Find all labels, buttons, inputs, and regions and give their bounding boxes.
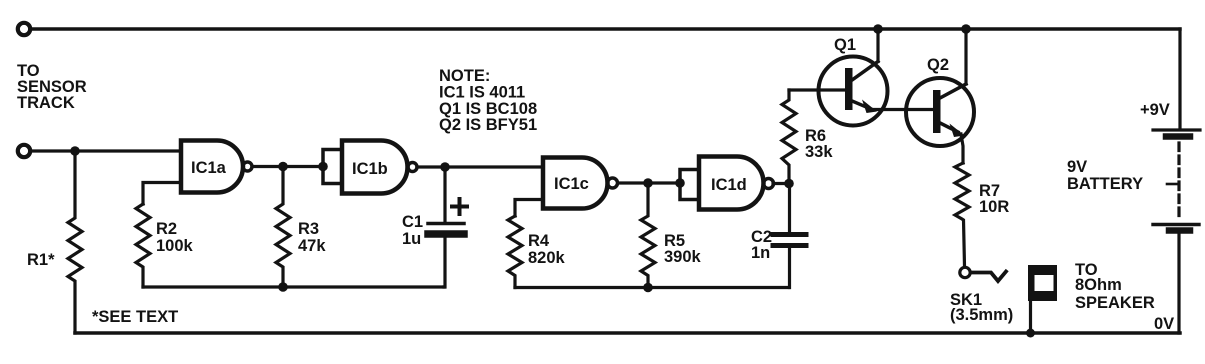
svg-text:390k: 390k — [664, 248, 702, 266]
svg-text:SPEAKER: SPEAKER — [1075, 294, 1155, 312]
node IC1d tied input — [675, 178, 685, 188]
terminal TOP-LEFT (sensor track +) — [18, 23, 30, 35]
battery cell 1 long plate — [1153, 128, 1200, 131]
svg-text:820k: 820k — [528, 249, 566, 267]
node IC1b tied input — [318, 162, 328, 172]
node R1 junction — [70, 146, 80, 156]
transistor Q2 — [906, 78, 974, 146]
svg-text:1n: 1n — [751, 244, 770, 262]
node Q2 collector rail — [961, 24, 971, 34]
battery cell 1 short plate — [1166, 133, 1190, 140]
battery cell 2 short plate — [1169, 227, 1190, 234]
svg-text:*SEE TEXT: *SEE TEXT — [92, 308, 178, 326]
wire IC1b input tie bracket — [323, 150, 342, 184]
wire IC1d output to R6/C2 node — [773, 182, 789, 185]
wire Q1 emitter to Q2 base — [870, 108, 933, 111]
svg-text:NOTE:: NOTE: — [439, 67, 490, 85]
svg-text:Q2 IS BFY51: Q2 IS BFY51 — [439, 116, 537, 134]
battery bottom lead — [1177, 234, 1180, 334]
svg-text:IC1d: IC1d — [711, 176, 747, 194]
svg-text:47k: 47k — [298, 237, 326, 255]
wire bottom 0V rail — [75, 331, 1180, 335]
wire feedback bus B — [515, 286, 789, 289]
node R3 top — [278, 162, 288, 172]
resistor R1 — [68, 151, 82, 333]
svg-text:33k: 33k — [805, 143, 833, 161]
wire IC1c output to IC1d input — [618, 181, 680, 184]
svg-text:Q2: Q2 — [927, 56, 949, 74]
battery cell 2 long plate — [1153, 223, 1199, 226]
battery B1 top lead — [1178, 29, 1181, 128]
wire feedback bus A — [143, 285, 444, 288]
capacitor C2 — [788, 184, 791, 233]
wire R6 to Q1 base — [789, 88, 845, 91]
node speaker 0V — [1026, 329, 1035, 338]
svg-text:9V: 9V — [1067, 158, 1087, 176]
wire sensor input to IC1a — [30, 149, 181, 152]
resistor R7 — [955, 163, 969, 266]
svg-text:R3: R3 — [298, 220, 319, 238]
node C1 top — [440, 162, 450, 172]
wire IC1a lower input from R2 — [143, 183, 181, 205]
op-amp/gate IC1a — [181, 141, 252, 193]
resistor R3 — [276, 167, 290, 288]
wire speaker to 0V rail — [1029, 301, 1032, 333]
resistor R4 — [508, 216, 522, 288]
node Q1 collector rail — [873, 24, 883, 34]
terminal sensor input — [18, 145, 30, 157]
svg-text:0V: 0V — [1154, 315, 1174, 333]
op-amp/gate IC1d — [699, 157, 774, 210]
resistor R2 — [136, 204, 150, 287]
resistor R5 — [641, 183, 655, 288]
svg-text:C1: C1 — [402, 213, 423, 231]
socket SK1 — [960, 267, 970, 277]
wire Q2 collector to +rail — [964, 29, 967, 84]
wire IC1c lower input from R4 — [515, 200, 543, 217]
wire top supply rail — [30, 27, 1180, 30]
svg-text:IC1c: IC1c — [554, 175, 589, 193]
svg-text:IC1a: IC1a — [191, 159, 227, 177]
wire IC1b output to IC1c input — [417, 165, 542, 168]
svg-text:BATTERY: BATTERY — [1067, 175, 1143, 193]
node R6/C2 junction — [784, 179, 794, 189]
svg-text:IC1 IS 4011: IC1 IS 4011 — [439, 84, 525, 102]
svg-text:R2: R2 — [156, 220, 177, 238]
svg-text:TRACK: TRACK — [17, 94, 75, 112]
battery label pointer tick — [1167, 183, 1177, 186]
svg-text:100k: 100k — [156, 237, 194, 255]
op-amp/gate IC1c — [543, 158, 618, 209]
speaker icon — [1028, 265, 1057, 301]
node R5 bottom — [643, 283, 653, 293]
wire IC1d input tie bracket — [680, 170, 699, 200]
C1 plus sign — [452, 199, 467, 214]
svg-text:1u: 1u — [402, 230, 421, 248]
svg-text:(3.5mm): (3.5mm) — [950, 306, 1013, 324]
svg-text:10R: 10R — [979, 198, 1009, 216]
node R5 top — [643, 178, 653, 188]
transistor Q1 — [819, 57, 888, 126]
svg-text:8Ohm: 8Ohm — [1075, 276, 1122, 294]
svg-text:R4: R4 — [528, 232, 550, 250]
svg-text:+9V: +9V — [1140, 101, 1170, 119]
battery dashed middle wire — [1177, 143, 1180, 221]
svg-text:R1*: R1* — [27, 251, 55, 269]
wire Q1 collector to +rail — [876, 29, 879, 62]
SK1 switch hook — [972, 272, 1007, 282]
node R3 bottom — [278, 282, 288, 292]
capacitor C1 — [443, 167, 446, 222]
wire IC1a output to IC1b input — [252, 165, 323, 168]
wire Q2 emitter to R7 — [961, 134, 963, 163]
svg-text:Q1: Q1 — [834, 36, 856, 54]
svg-text:IC1b: IC1b — [352, 160, 388, 178]
op-amp/gate IC1b — [342, 141, 417, 194]
resistor R6 — [782, 90, 796, 184]
